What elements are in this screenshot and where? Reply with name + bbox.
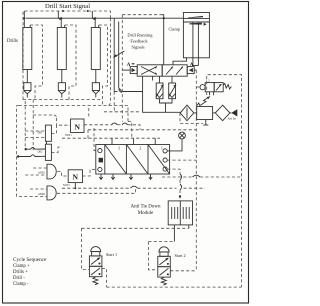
- svg-text:OR1: OR1: [38, 132, 44, 135]
- wire signal line to clamp valve: [122, 15, 164, 65]
- wire mid dashed bus rows: [33, 115, 196, 138]
- regulator R1: [194, 103, 213, 125]
- wire lamp to module port: [167, 139, 182, 151]
- valve V1 clamp 5/2: [137, 65, 187, 76]
- svg-text:Drills: Drills: [7, 39, 18, 44]
- svg-text:N: N: [74, 122, 80, 131]
- svg-text:Drill Running: Drill Running: [127, 33, 153, 38]
- wire start enclosure dashed top: [82, 228, 189, 241]
- svg-text:Module: Module: [138, 211, 154, 216]
- wire N1 to module: [84, 124, 112, 126]
- wire dashed feedback box edge: [121, 15, 123, 122]
- wire dashed bus rows upper left: [19, 100, 128, 122]
- svg-text:Anti Tie Down: Anti Tie Down: [130, 205, 161, 210]
- drill cylinder 2: [57, 10, 76, 100]
- wire OR1 to N1: [51, 125, 70, 133]
- svg-text:Drill Start Signal: Drill Start Signal: [45, 3, 90, 10]
- svg-text:A: A: [190, 63, 194, 68]
- svg-text:Start 2: Start 2: [175, 253, 186, 258]
- wire clamp cylinder cap-end to valve: [173, 58, 187, 65]
- drill running feedback solid lines: [114, 18, 121, 112]
- regulator adjustment arrow: [200, 97, 210, 106]
- wire G2 inputs: [30, 188, 47, 190]
- svg-text:Clamp: Clamp: [169, 27, 180, 32]
- svg-text:2: 2: [140, 147, 142, 151]
- main air supply line: [114, 76, 180, 112]
- wire start1 dashed connections: [82, 228, 107, 287]
- anti tie down module: [168, 201, 192, 225]
- pilot A right of valve V1: [187, 63, 196, 74]
- svg-text:OR2: OR2: [38, 151, 44, 154]
- svg-text:NOT2: NOT2: [63, 184, 70, 187]
- svg-text:Feedback: Feedback: [130, 39, 148, 44]
- flow control FC3 under drill 3: [92, 70, 99, 98]
- drill cylinder 3: [87, 10, 108, 106]
- svg-text:Drill -: Drill -: [13, 276, 25, 281]
- wire dashed input to G1: [25, 168, 47, 175]
- module right ports: [163, 149, 167, 171]
- svg-text:N: N: [73, 173, 79, 182]
- wire G2 output bus: [57, 188, 136, 193]
- start valve 2: [158, 247, 171, 285]
- valve V1 bottom port stubs: [152, 76, 154, 80]
- clamp cylinder: [183, 13, 209, 66]
- pilot A left of valve V1: [122, 63, 137, 74]
- border frame: [3, 2, 249, 304]
- svg-text:Air In: Air In: [228, 117, 236, 121]
- shuttle valve OR2: [45, 144, 51, 160]
- wire right vertical dashed: [196, 70, 200, 271]
- wire N2 bottom to dashed bus: [62, 183, 205, 190]
- svg-text:3: 3: [118, 147, 120, 151]
- flow control FC4: [156, 76, 164, 99]
- wire left dashed verticals: [17, 100, 47, 197]
- logic element N2: [68, 170, 82, 183]
- wire lower right dashed bus: [162, 175, 242, 177]
- wire module port3 to anti tie down: [167, 169, 181, 201]
- and gate G1: [47, 164, 56, 179]
- svg-text:A: A: [127, 63, 131, 68]
- svg-text:Clamp +: Clamp +: [13, 264, 30, 269]
- wire flow controls to supply: [160, 99, 173, 113]
- wire bottom dashed bus: [107, 286, 242, 288]
- wire start2 dashed connections: [148, 242, 196, 271]
- logic element N1: [71, 119, 85, 133]
- indicator lamp: [179, 132, 186, 139]
- air prep dashed enclosure: [180, 75, 242, 287]
- label Anti Tie Down Module: [130, 205, 161, 216]
- air inlet arrow: [228, 109, 238, 120]
- svg-text:Clamp -: Clamp -: [13, 282, 29, 287]
- svg-text:NOT1: NOT1: [65, 134, 72, 137]
- filter F1: [180, 105, 194, 121]
- and gate G2: [47, 186, 56, 200]
- label cycle sequence list: [13, 257, 47, 287]
- module top stubs: [112, 138, 155, 144]
- label Drill Running Feedback Signals: [114, 33, 154, 58]
- wire dashed inputs to OR1: [25, 131, 45, 138]
- wire drill start signal dashed bus: [23, 11, 110, 100]
- wire module port2 dashed to right: [167, 159, 196, 161]
- wire OR2 output hook: [51, 147, 62, 153]
- flow control FC2 under drill 2: [58, 70, 65, 98]
- module bottom exhaust stubs: [99, 174, 152, 180]
- drill cylinder 1: [23, 11, 43, 100]
- flow control FC5: [169, 76, 177, 99]
- lubricator L1: [213, 105, 230, 121]
- svg-text:1: 1: [161, 147, 163, 151]
- wire G1 to N2: [57, 172, 68, 177]
- svg-text:Drills +: Drills +: [13, 270, 28, 275]
- wire solid supply bus to clamp cylinder: [26, 17, 183, 19]
- wire anti tie down outputs: [174, 225, 188, 242]
- svg-text:Start 1: Start 1: [106, 252, 117, 257]
- shuttle valve OR1: [45, 125, 51, 144]
- valve V2 air shutoff 3/2: [200, 79, 231, 96]
- wire N2 to module: [83, 170, 98, 177]
- wire junction node A: [17, 148, 46, 158]
- svg-text:Signals: Signals: [131, 45, 145, 50]
- module left ports: [98, 149, 103, 172]
- svg-text:AND1: AND1: [38, 172, 46, 175]
- start valve 1: [89, 247, 102, 285]
- sequencer module main box: [96, 145, 170, 175]
- svg-text:Cycle Sequence: Cycle Sequence: [13, 257, 47, 263]
- svg-text:AND2: AND2: [38, 193, 46, 196]
- flow control FC1 under drill 1: [24, 70, 31, 98]
